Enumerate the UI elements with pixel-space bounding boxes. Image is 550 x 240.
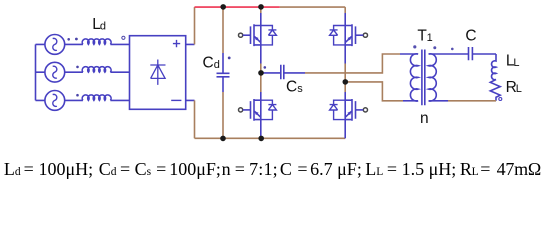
wire: phase C leads — [36, 99, 130, 101]
wire: phase B leads — [36, 71, 130, 73]
switch Q1 antiparallel diode — [261, 26, 277, 45]
transformer T1 primary winding — [410, 54, 418, 101]
wire: right leg upper — [344, 7, 346, 13]
switch Q1 body — [251, 24, 261, 46]
switch Q2 body — [251, 99, 261, 121]
svg-text:1: 1 — [427, 32, 433, 44]
capacitor Cs — [263, 65, 305, 80]
wire: top rail brown segment — [280, 6, 345, 8]
resistor RL — [490, 80, 500, 101]
svg-text:L: L — [516, 83, 522, 95]
switch Q3 body — [345, 24, 355, 46]
inductor Ld phase C — [82, 95, 111, 101]
parameter caption — [4, 160, 93, 179]
rectifier bridge box — [130, 36, 186, 110]
wire: right leg lower — [344, 120, 346, 139]
inductor Ld phase A — [82, 39, 111, 45]
switch Q4 antiparallel diode — [330, 100, 346, 119]
svg-text:n: n — [420, 110, 429, 127]
wire: rectifier plus to top rail — [194, 7, 196, 44]
transformer T1 secondary winding — [429, 54, 437, 101]
svg-text:C: C — [286, 79, 297, 96]
svg-text:d: d — [100, 20, 106, 32]
rectifier diode symbol — [150, 60, 165, 85]
inductor Ld phase B — [82, 67, 111, 73]
wire: rectifier minus to bottom rail — [194, 100, 196, 138]
svg-text:s: s — [297, 83, 303, 95]
open ring marker near rectifier input — [122, 36, 125, 39]
capacitor Cd — [217, 53, 230, 92]
ac source VA — [45, 35, 65, 55]
wire: Cs to transformer primary top — [305, 54, 400, 73]
wire: top rail red segment — [195, 6, 280, 8]
svg-text:L: L — [513, 57, 519, 69]
capacitor C — [469, 47, 497, 60]
switch Q3 gate terminal — [363, 33, 367, 37]
switch Q2 antiparallel diode — [261, 100, 277, 119]
wire: source neutral bus — [35, 44, 37, 100]
svg-text:C: C — [203, 55, 214, 72]
wire: right leg mid to transformer primary bottom — [345, 82, 403, 101]
switch Q2 gate terminal — [239, 108, 243, 112]
ac source VB — [45, 62, 65, 82]
wire: bottom rail — [195, 137, 346, 139]
wire: left leg upper — [260, 7, 262, 13]
wire: phase A leads — [36, 43, 130, 45]
transformer T1 core — [422, 50, 425, 106]
wire: secondary bottom lead — [429, 100, 448, 102]
transformer polarity marker dots — [413, 45, 416, 48]
switch Q4 body — [345, 99, 355, 121]
ac source VC — [45, 91, 65, 111]
wire: Cd bottom lead — [222, 92, 224, 138]
wire: right leg middle — [344, 45, 346, 64]
tiny node markers — [67, 38, 70, 41]
switch Q1 gate terminal — [239, 33, 243, 37]
junction dots — [220, 4, 226, 10]
wire: left leg lower — [260, 120, 262, 139]
switch Q4 gate terminal — [363, 108, 367, 112]
rectifier plus terminal mark — [173, 40, 180, 47]
svg-text:d: d — [214, 59, 220, 71]
wire: Cd top lead — [222, 7, 224, 53]
wire: secondary top lead — [429, 53, 469, 55]
switch Q3 antiparallel diode — [330, 26, 346, 45]
wire: left leg middle — [260, 45, 262, 64]
rectifier minus terminal mark — [171, 99, 181, 101]
inductor LL — [492, 54, 496, 80]
svg-text:C: C — [465, 27, 476, 44]
node marker near RL — [499, 98, 502, 101]
rectifier output pins — [186, 44, 195, 100]
